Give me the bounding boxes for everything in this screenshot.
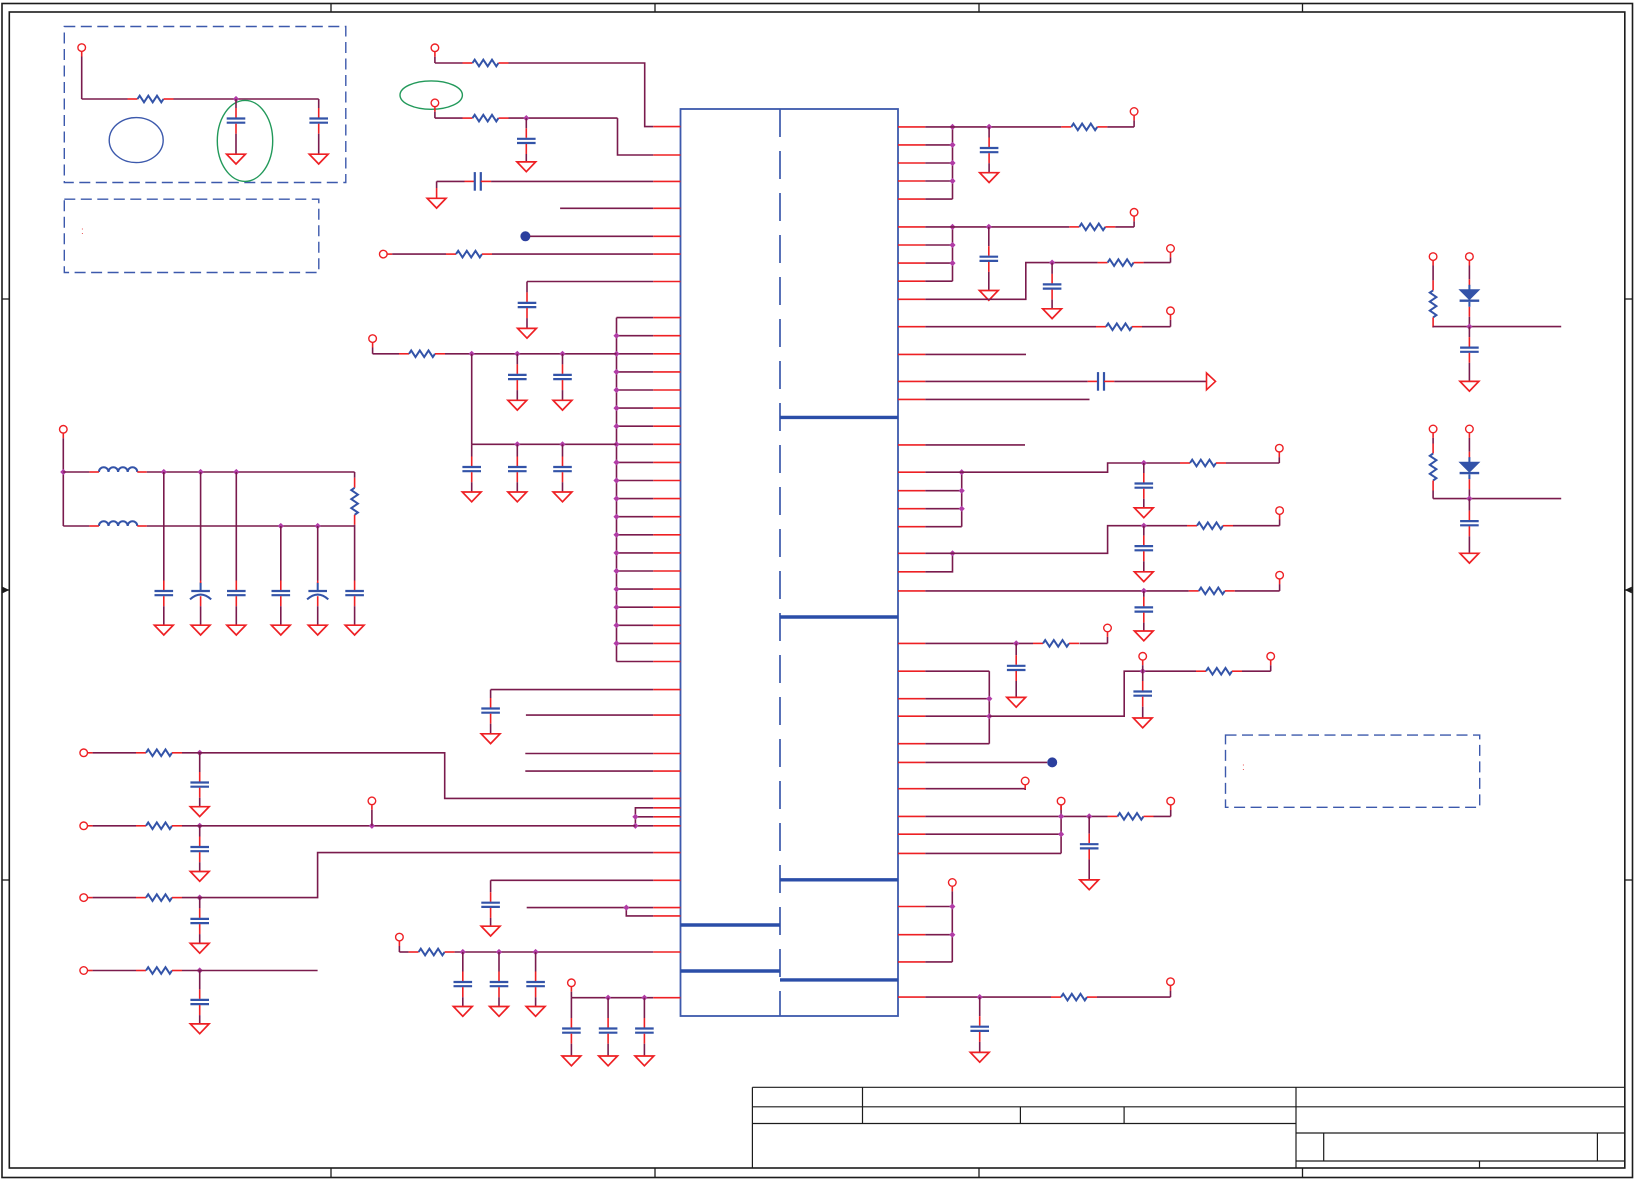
IC pin row <box>898 743 925 745</box>
wire <box>1432 266 1434 281</box>
resistor R6 (vertical) <box>354 472 356 478</box>
green ellipse marker 1 <box>217 100 272 181</box>
ground <box>518 328 537 338</box>
wire <box>1144 262 1171 264</box>
wire <box>93 970 136 972</box>
green ellipse marker 2 <box>400 81 462 109</box>
resistor R8 <box>136 825 146 827</box>
wire <box>509 117 618 119</box>
wire <box>925 642 1033 644</box>
capacitor C36 + ground <box>1015 643 1017 655</box>
junction <box>613 387 619 393</box>
capacitor C2 + ground <box>318 99 320 108</box>
dashed box region 1 (top-left) <box>64 27 346 183</box>
resistor R12 <box>1061 126 1071 128</box>
port P7 <box>80 749 88 757</box>
capacitor C33 + ground <box>1143 463 1145 473</box>
junction <box>613 604 619 610</box>
junction <box>949 124 955 130</box>
capacitor C28 + ground <box>643 998 645 1018</box>
IC pin row L12 <box>617 389 654 391</box>
resistor R10 <box>136 970 146 972</box>
wire <box>81 57 83 100</box>
junction <box>469 351 475 357</box>
capacitor C11 + ground <box>163 472 165 581</box>
junction <box>959 506 965 512</box>
IC pin row L17 <box>617 480 654 482</box>
wire <box>925 815 1107 817</box>
ground <box>453 1007 472 1017</box>
junction <box>986 124 992 130</box>
port P19 <box>1276 507 1284 515</box>
capacitor C14 + ground <box>280 526 282 581</box>
ground for series cap row <box>427 198 446 208</box>
wire <box>471 354 473 445</box>
capacitor C21 + ground <box>199 898 201 909</box>
wire <box>925 226 1069 228</box>
capacitor C24 + ground <box>498 952 500 972</box>
junction <box>1141 588 1147 594</box>
ground <box>190 1024 209 1034</box>
capacitor C19 + ground <box>199 753 201 772</box>
IC pin row L7 <box>653 281 680 283</box>
IC pin row L32 <box>653 797 680 799</box>
ground <box>190 943 209 953</box>
svg-text::: : <box>81 226 84 237</box>
resistor R7 <box>136 752 146 754</box>
IC pin row <box>898 833 925 835</box>
junction <box>1466 496 1472 502</box>
wire <box>491 180 653 182</box>
port P6 <box>60 426 68 434</box>
junction <box>949 903 955 909</box>
ground <box>517 162 536 172</box>
ground <box>462 492 481 502</box>
ground <box>553 400 572 410</box>
IC pin row L23 <box>617 588 654 590</box>
svg-text::: : <box>1242 762 1245 773</box>
junction <box>514 441 520 447</box>
series capacitor C4 <box>465 180 475 182</box>
IC pin row L15 <box>617 443 654 445</box>
port P27 <box>949 879 957 887</box>
port P20 <box>1276 571 1284 579</box>
IC pin row L24 <box>617 606 654 608</box>
ground <box>490 1007 509 1017</box>
ground <box>1007 697 1026 707</box>
wire <box>93 897 136 899</box>
junction <box>60 469 66 475</box>
ground <box>1134 508 1153 518</box>
ground <box>227 154 246 164</box>
junction <box>533 949 539 955</box>
resistor R5 <box>399 353 409 355</box>
capacitor C37 + ground <box>1142 671 1144 681</box>
wire <box>392 253 446 255</box>
port P11 <box>368 797 376 805</box>
junction <box>1140 668 1146 674</box>
junction <box>613 568 619 574</box>
junction <box>613 441 619 447</box>
junction <box>977 994 983 1000</box>
junction <box>1058 831 1064 837</box>
port P9 <box>80 894 88 902</box>
IC pin row R12 <box>898 353 925 355</box>
wire rail <box>1469 326 1561 328</box>
resistor R3 <box>463 117 473 119</box>
port P23 <box>1267 653 1275 661</box>
junction <box>613 423 619 429</box>
wire <box>1233 525 1280 527</box>
series capacitor C32 <box>1088 380 1098 382</box>
wire <box>925 590 1189 592</box>
junction <box>949 242 955 248</box>
ground <box>1460 553 1479 563</box>
capacitor C30 + ground <box>988 227 990 246</box>
ground <box>508 400 527 410</box>
wire <box>527 281 653 283</box>
wire stub <box>560 207 653 209</box>
junction <box>613 550 619 556</box>
junction <box>613 459 619 465</box>
IC pin row R20 <box>898 552 925 554</box>
port P28 <box>1167 978 1175 986</box>
capacitor C29 + ground <box>988 127 990 138</box>
IC pin row L9 <box>617 335 654 337</box>
dashed box region 2 <box>64 199 318 272</box>
IC pin row R29 <box>898 788 925 790</box>
wire <box>174 98 319 100</box>
IC pin row L14 <box>617 425 654 427</box>
IC pin row R23 <box>898 642 925 644</box>
IC pin row <box>898 180 925 182</box>
wire <box>491 689 654 691</box>
no-connect dot <box>520 231 530 241</box>
junction <box>197 895 203 901</box>
capacitor C20 + ground <box>199 826 201 837</box>
wire <box>398 946 400 952</box>
IC pin row L4 <box>653 207 680 209</box>
wire <box>63 525 89 527</box>
wire <box>1080 642 1108 644</box>
capacitor C38 + ground <box>1088 816 1090 833</box>
junction <box>613 514 619 520</box>
capacitor C10 + ground <box>562 444 564 456</box>
IC pin row <box>898 698 925 700</box>
capacitor C23 + ground <box>462 952 464 972</box>
ground <box>980 173 999 183</box>
port P15 <box>1130 209 1138 217</box>
IC pin row <box>898 162 925 164</box>
IC pin row <box>898 961 925 963</box>
IC pin row L22 <box>617 570 654 572</box>
junction <box>949 260 955 266</box>
IC pin row <box>898 262 925 264</box>
junction <box>949 932 955 938</box>
junction <box>613 496 619 502</box>
inductor L2 <box>99 521 137 526</box>
junction <box>233 96 239 102</box>
junction <box>278 523 284 529</box>
wire row1 to IC <box>182 753 653 799</box>
wire <box>1242 670 1271 672</box>
wire <box>63 471 89 473</box>
IC pin row <box>898 815 925 817</box>
IC pin row L30 <box>653 753 680 755</box>
right bus group B <box>952 227 954 281</box>
junction <box>1013 640 1019 646</box>
port P31 <box>1429 425 1437 433</box>
wire <box>1097 996 1171 998</box>
wire to IC pin 1 <box>509 63 654 127</box>
resistor R16 <box>1180 462 1190 464</box>
wire <box>93 752 136 754</box>
junction <box>986 713 992 719</box>
title block <box>752 1086 1624 1088</box>
capacitor C1 + ground <box>235 99 237 108</box>
resistor R4 <box>446 253 456 255</box>
resistor R24 (vertical) <box>1432 444 1434 454</box>
IC pin row <box>898 852 925 854</box>
junction <box>613 532 619 538</box>
port P32 <box>1466 425 1474 433</box>
junction <box>514 351 520 357</box>
right bus group A <box>952 127 954 199</box>
port P10 <box>80 967 88 975</box>
IC pin row L1 <box>653 126 680 128</box>
port P25 <box>1057 797 1065 805</box>
IC U1 internal dashed divider <box>779 109 781 1016</box>
wire <box>492 253 653 255</box>
frame center arrow left <box>2 589 9 591</box>
ground <box>508 492 527 502</box>
right bus group E <box>1060 805 1062 853</box>
junction <box>1058 813 1064 819</box>
wire rail 2 <box>472 443 617 445</box>
junction <box>613 477 619 483</box>
junction <box>949 550 955 556</box>
IC pin row L6 <box>653 253 680 255</box>
junction <box>613 586 619 592</box>
ground <box>190 807 209 817</box>
junction <box>613 405 619 411</box>
IC pin row L26 <box>617 642 654 644</box>
wire pair bus <box>527 907 654 909</box>
diode D2 <box>1468 457 1470 462</box>
IC pin row L5 <box>653 235 680 237</box>
inductor L1 <box>99 467 137 472</box>
ground <box>970 1052 989 1062</box>
wire <box>93 825 136 827</box>
capacitor C3 + ground <box>525 118 527 128</box>
wire <box>372 348 374 354</box>
wire <box>1432 326 1434 329</box>
junction <box>1141 460 1147 466</box>
wire stub <box>925 353 1026 355</box>
IC pin row L18 <box>617 498 654 500</box>
capacitor C13 + ground <box>235 472 237 581</box>
ground <box>271 625 290 635</box>
wire stub <box>526 714 653 716</box>
frame center arrow right <box>1625 589 1633 591</box>
port P4 <box>380 250 388 258</box>
IC pin row R11 <box>898 326 925 328</box>
IC pin row R14 <box>898 398 925 400</box>
ground <box>190 872 209 882</box>
port P17 <box>1167 307 1175 315</box>
junction <box>1141 523 1147 529</box>
wire <box>1432 491 1434 499</box>
junction <box>641 995 647 1001</box>
resistor R2 <box>463 62 473 64</box>
IC pin row L28 <box>653 689 680 691</box>
port P2 <box>431 44 439 52</box>
port P18 <box>1276 444 1284 452</box>
wire row2 to IC <box>182 825 635 827</box>
IC pin row L13 <box>617 407 654 409</box>
junction <box>197 823 203 829</box>
wire <box>1142 665 1144 671</box>
junction <box>523 115 529 121</box>
IC pin row <box>898 226 925 228</box>
IC pin row <box>898 471 925 473</box>
junction <box>369 823 375 829</box>
ground <box>979 291 998 301</box>
wire stub <box>525 770 653 772</box>
wire <box>925 788 1025 790</box>
junction <box>197 967 203 973</box>
IC pin row <box>898 490 925 492</box>
IC pin row L16 <box>617 461 654 463</box>
junction <box>198 469 204 475</box>
wire <box>371 810 373 826</box>
wire <box>925 761 1047 763</box>
IC pin row L36 <box>653 852 680 854</box>
capacitor C17 + ground <box>490 690 492 698</box>
IC pin row <box>898 244 925 246</box>
wire trio bus <box>635 808 653 826</box>
capacitor C26 + ground <box>570 998 572 1018</box>
ground <box>562 1056 581 1066</box>
capacitor C9 + ground <box>516 444 518 456</box>
port P24 <box>1021 777 1029 785</box>
wire <box>925 126 1061 128</box>
IC pin row L29 <box>653 714 680 716</box>
resistor R22 <box>1051 996 1061 998</box>
wire <box>925 263 1097 300</box>
resistor R11 <box>409 951 419 953</box>
ground <box>1043 309 1062 319</box>
ground <box>1134 631 1153 641</box>
junction <box>197 750 203 756</box>
ground <box>526 1007 545 1017</box>
port P8 <box>80 822 88 830</box>
IC pin row <box>898 715 925 717</box>
wire stub <box>925 444 1025 446</box>
capacitor C6 + ground <box>516 354 518 365</box>
port P14 <box>1130 108 1138 116</box>
wire <box>491 879 654 881</box>
IC pin row <box>898 670 925 672</box>
wire <box>925 553 952 572</box>
IC pin row L19 <box>617 516 654 518</box>
IC pin row R36 <box>898 996 925 998</box>
IC pin row L41 <box>653 997 680 999</box>
IC pin row L37 <box>653 879 680 881</box>
capacitor C41 + ground <box>1468 499 1470 511</box>
wire <box>530 235 653 237</box>
capacitor C27 + ground <box>607 998 609 1018</box>
ground <box>553 492 572 502</box>
wire <box>925 380 1087 382</box>
junction <box>613 351 619 357</box>
IC pin row <box>898 198 925 200</box>
junction <box>233 469 239 475</box>
junction <box>613 622 619 628</box>
ground <box>154 625 173 635</box>
IC pin row R15 <box>898 444 925 446</box>
junction <box>623 905 629 911</box>
resistor R21 <box>1108 815 1118 817</box>
wire rail top <box>147 471 355 473</box>
ground <box>635 1056 654 1066</box>
IC pin row L11 <box>617 371 654 373</box>
junction <box>949 160 955 166</box>
junction <box>1049 260 1055 266</box>
no-connect dot <box>1047 757 1057 767</box>
capacitor C40 + ground <box>1468 327 1470 338</box>
IC pin row <box>898 144 925 146</box>
blue ellipse marker <box>109 118 163 163</box>
IC pin row L10 <box>617 353 654 355</box>
IC pin row L8 <box>617 317 654 319</box>
junction <box>632 814 638 820</box>
junction <box>959 469 965 475</box>
ground <box>308 625 327 635</box>
IC pin row L38 <box>653 907 680 909</box>
junction <box>613 333 619 339</box>
ground <box>1133 718 1152 728</box>
wire stub <box>925 398 1089 400</box>
junction <box>559 351 565 357</box>
off-page arrow <box>1207 373 1216 390</box>
port P16 <box>1167 245 1175 253</box>
IC pin row L3 <box>653 180 680 182</box>
IC pin row <box>898 280 925 282</box>
IC U1 body <box>681 109 899 1016</box>
port P5 <box>369 335 377 343</box>
IC pin row R22 <box>898 590 925 592</box>
port P1 (box1) <box>78 44 86 52</box>
wire <box>1235 590 1280 592</box>
wire <box>1154 815 1171 817</box>
port P21 <box>1104 624 1112 632</box>
port P26 <box>1167 797 1175 805</box>
left pin bus vertical <box>616 318 618 662</box>
capacitor C16 + ground <box>354 526 356 581</box>
junction <box>613 640 619 646</box>
junction <box>605 995 611 1001</box>
wire row4 stub <box>182 970 318 972</box>
capacitor C22 + ground <box>199 971 201 990</box>
wire <box>570 992 572 998</box>
port P13 <box>568 979 576 987</box>
wire <box>1468 479 1470 489</box>
wire <box>1468 307 1470 317</box>
wire <box>434 112 436 118</box>
IC pin row L40 <box>653 951 680 953</box>
ground <box>309 154 328 164</box>
